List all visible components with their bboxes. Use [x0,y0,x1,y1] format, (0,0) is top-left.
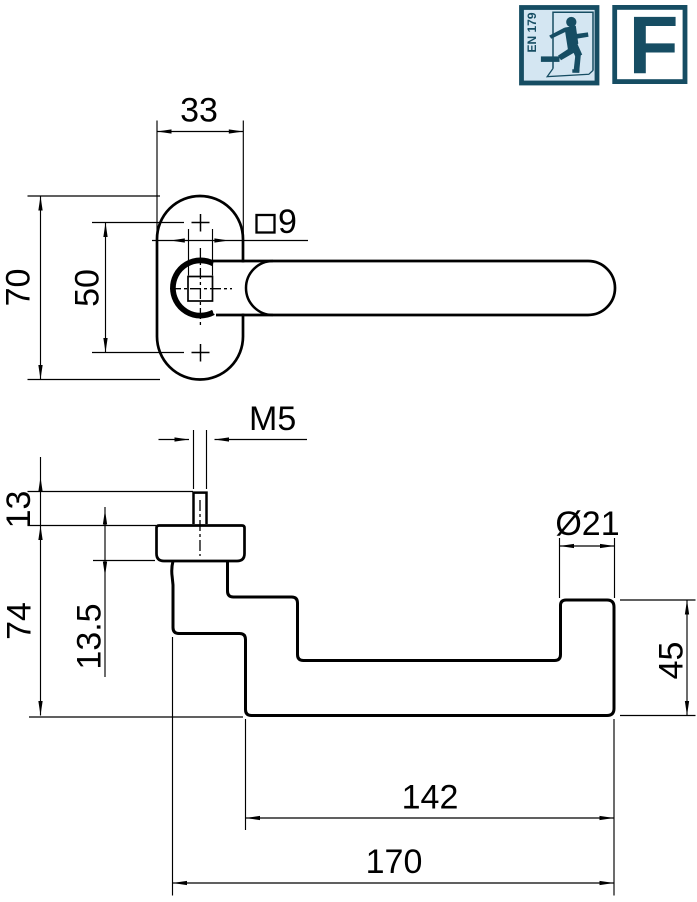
dimension 13.5 arrows [103,510,107,525]
dimension square 9 extension lines [152,229,308,276]
dimension D21 extension lines [560,538,615,598]
dimension square 9 arrows [170,238,185,242]
grip dome arc [246,261,273,315]
dimension 70 arrows [38,196,42,211]
screw hole cross top [192,214,210,232]
spindle horizontal centerline [170,288,232,290]
F icon frame [615,7,685,81]
handle profile outline [172,561,614,716]
svg-text:70: 70 [0,269,38,307]
EN 179 icon frame [522,8,598,84]
svg-text:9: 9 [278,203,297,241]
dimension D21 arrows [560,544,575,548]
svg-text:45: 45 [653,642,691,680]
svg-text:142: 142 [402,779,459,817]
svg-text:Ø21: Ø21 [555,505,619,543]
dimension 70 extension lines [28,196,161,380]
EN 179 door frame [553,12,593,70]
svg-text:F: F [629,0,679,91]
dimension 33 extension lines [157,121,243,260]
svg-text:M5: M5 [249,400,296,438]
dimension 50 arrows [103,223,107,238]
spindle vertical centerline [199,248,201,328]
rose (oval escutcheon, stadium shape) [157,196,243,380]
dimension 170 arrows [173,881,188,885]
svg-text:170: 170 [366,843,423,881]
dimension M5 extension lines [159,430,308,489]
dimension 74 bottom arrow [38,701,42,716]
dimension 13 / 74 extension lines [28,457,244,717]
dimension 142 extension lines [246,719,615,896]
screw hole cross bottom [192,344,210,362]
lever handle outline [211,261,615,315]
dimension M5 arrows [175,437,190,441]
white mask over lever interior [213,263,603,314]
dimension label square 9 [257,215,275,233]
dimension 45 arrows [685,600,689,615]
dimension 50 extension lines [92,223,184,353]
svg-text:74: 74 [1,602,39,640]
handle boss (thick circle arc) [173,260,213,315]
square spindle hole 9mm [188,277,213,302]
EN 179 running man [541,17,589,73]
svg-text:EN 179: EN 179 [525,12,539,52]
dimension 45 extension lines [620,600,696,716]
dimension 13.5 extension lines [93,507,155,677]
svg-text:33: 33 [180,92,218,130]
dimension 33 arrows [157,129,172,133]
stud centerline [199,500,201,556]
dimension 142 arrows [246,816,261,820]
svg-text:50: 50 [69,269,107,307]
EN 179 door threshold [547,69,593,77]
dimension 13 arrows [38,477,42,492]
M5 stud [194,493,207,524]
svg-text:13: 13 [0,491,38,529]
dimension 170 extension lines [173,637,615,896]
svg-text:13.5: 13.5 [71,603,109,669]
rose side view [157,526,245,562]
